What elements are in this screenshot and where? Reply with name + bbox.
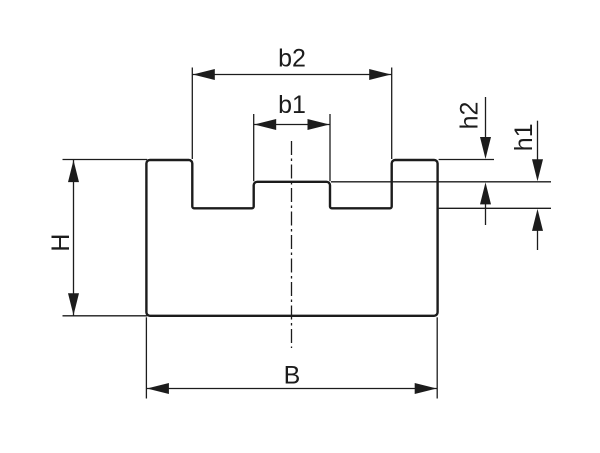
dimension H: dimension line: [73, 160, 75, 316]
dimension H: arrowhead bottom: [68, 293, 79, 315]
dimension b2: arrowhead left: [193, 69, 215, 80]
extension line from shoulder top (reference for h2): [439, 159, 494, 161]
dimension h2: lower leader line: [485, 200, 487, 225]
dimension B: dimension line: [146, 388, 437, 390]
dimension b1: arrowhead left: [254, 119, 276, 130]
dimension b1: dimension line: [254, 124, 330, 126]
dimension h1: lower leader line: [537, 229, 539, 250]
dimension b1: extension line left: [253, 114, 255, 181]
extension line from tongue top (reference for h2/h1): [331, 181, 551, 183]
centerline (vertical dash-dot axis): [291, 141, 293, 348]
dimension b1: arrowhead right: [308, 119, 330, 130]
svg-text:B: B: [284, 362, 301, 390]
svg-text:b2: b2: [278, 44, 306, 72]
svg-text:b1: b1: [278, 91, 306, 119]
svg-text:h1: h1: [510, 123, 538, 151]
dimension b2: extension line left: [191, 68, 193, 160]
dimension H: extension line bottom: [63, 315, 148, 317]
svg-text:H: H: [47, 234, 75, 252]
dimension B: extension line right: [436, 317, 438, 398]
dimension h2: arrowhead up (tip at tongue top line): [480, 182, 491, 204]
dimension B: extension line left: [145, 317, 147, 398]
extension line from groove bottom (reference for h1): [439, 207, 551, 209]
dimension B: arrowhead right: [415, 383, 437, 394]
dimension h2: arrowhead down (tip at shoulder top line): [480, 137, 491, 159]
dimension b1: extension line right: [329, 114, 331, 181]
dimension b2: extension line right: [391, 68, 393, 160]
dimension b2: dimension line: [192, 74, 391, 76]
dimension h1: upper leader line: [537, 121, 539, 161]
dimension h2: upper leader line: [485, 97, 487, 140]
dimension H: extension line top: [63, 159, 148, 161]
dimension h1: arrowhead up (tip at groove bottom line): [532, 209, 543, 231]
dimension b2: arrowhead right: [369, 69, 391, 80]
profile outline (double-groove guide cross-section, thick): [146, 160, 437, 316]
svg-text:h2: h2: [456, 102, 484, 130]
dimension B: arrowhead left: [147, 383, 169, 394]
dimension H: arrowhead top: [68, 160, 79, 182]
dimension h1: arrowhead down (tip at tongue top line): [532, 159, 543, 181]
